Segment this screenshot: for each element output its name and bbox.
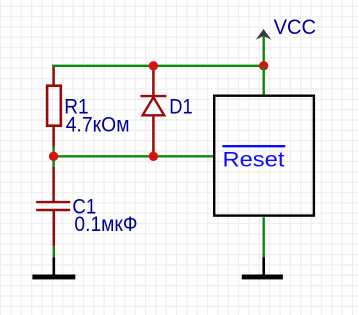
wire D1 to middle rail	[152, 153, 154, 157]
pin D1 bottom (anode)	[152, 115, 155, 152]
pin label Reset	[223, 148, 285, 171]
pin R1 top	[52, 67, 55, 86]
svg-text:D1: D1	[169, 95, 192, 118]
power symbol VCC arrow	[256, 29, 272, 40]
pin C1 bottom	[53, 209, 56, 246]
svg-text:0.1мкФ: 0.1мкФ	[74, 213, 137, 236]
wire VCC stub up	[263, 36, 265, 66]
label D1	[169, 95, 192, 118]
wire R1 to C1 (node junction segment)	[52, 147, 54, 168]
pin C1 top	[52, 167, 55, 202]
ground right	[242, 258, 283, 280]
resistor R1	[47, 86, 61, 126]
junction dot rail-VCC	[259, 61, 268, 70]
svg-text:4.7кОм: 4.7кОм	[66, 113, 130, 136]
diode D1	[140, 96, 166, 115]
value 0.1uF	[74, 213, 137, 236]
ground left	[32, 258, 75, 280]
pin R1 bottom	[52, 127, 55, 147]
svg-text:Reset: Reset	[223, 148, 285, 171]
net label VCC	[274, 16, 316, 39]
pin D1 top (cathode)	[152, 65, 155, 96]
junction dot R1-C1	[49, 152, 58, 161]
wire middle rail (reset net)	[54, 155, 215, 157]
value 4.7kOhm	[66, 113, 130, 136]
junction dot D1-middle rail	[149, 152, 158, 161]
label R1	[64, 95, 88, 118]
wire IC bottom to ground	[263, 217, 265, 257]
label C1	[72, 195, 96, 218]
svg-text:VCC: VCC	[274, 16, 316, 39]
wire VCC rail to IC top pin	[263, 66, 265, 95]
wire C1 to ground	[53, 246, 55, 257]
pin label Reset overline	[222, 145, 285, 147]
wire top VCC rail	[52, 65, 264, 67]
IC U1 box	[214, 96, 314, 216]
capacitor C1	[36, 202, 70, 210]
junction dot rail-D1 top	[149, 61, 158, 70]
